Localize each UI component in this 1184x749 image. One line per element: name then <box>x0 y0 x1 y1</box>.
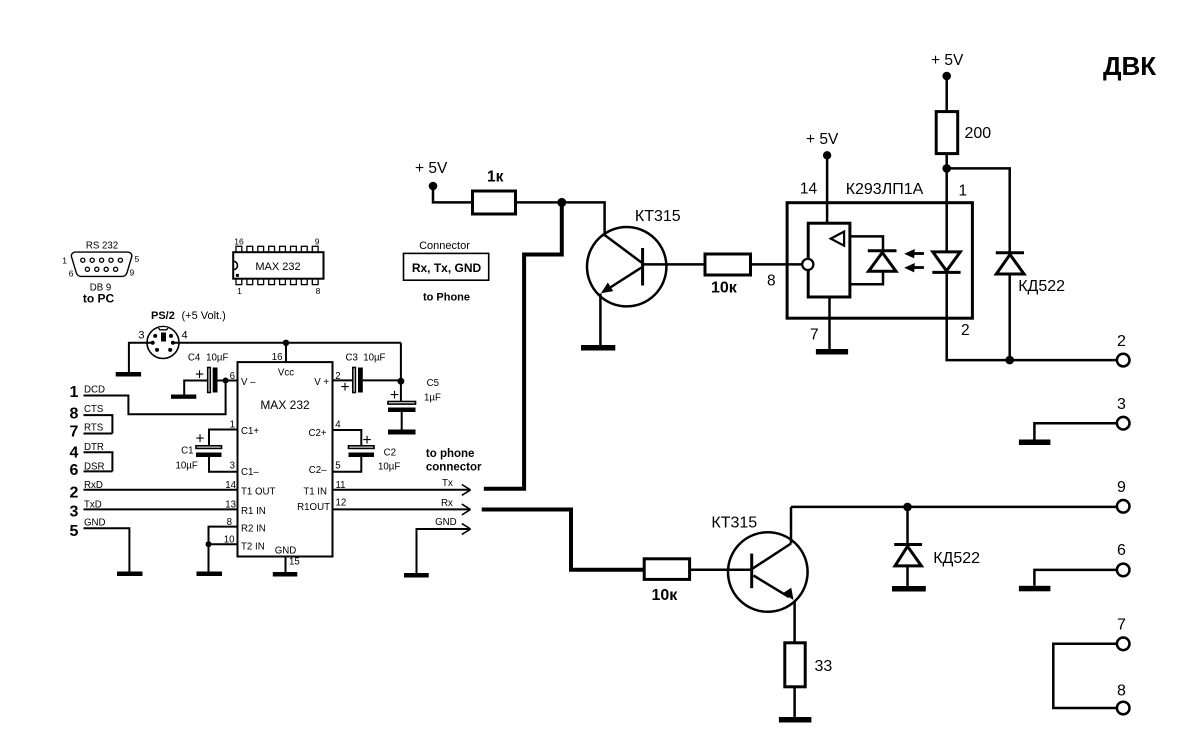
svg-text:КТ315: КТ315 <box>711 515 757 532</box>
wire R2 to opto input <box>751 263 803 266</box>
svg-text:GND: GND <box>275 546 297 557</box>
U1 pin 10 wire <box>209 543 238 545</box>
svg-text:C1–: C1– <box>241 467 259 478</box>
wire node to D3 KD522 <box>947 168 1010 252</box>
U1 pin 1 wire to C1 <box>209 430 238 446</box>
photodiode D2 cathode bar <box>932 271 960 274</box>
wire PS/2 pin3 to ground <box>129 343 153 372</box>
svg-text:3: 3 <box>230 460 235 471</box>
wire thick Rx stub <box>482 510 645 570</box>
PS/2 key <box>161 333 166 342</box>
U1 pin 3 wire from C1 <box>209 457 238 472</box>
capacitor C5 plates <box>388 402 416 413</box>
transistor Q1 KT315 body <box>587 227 666 306</box>
svg-text:1к: 1к <box>487 169 504 186</box>
DIP top pins <box>236 246 318 252</box>
svg-text:RS 232: RS 232 <box>86 241 118 252</box>
svg-text:C2+: C2+ <box>308 428 326 439</box>
wire D2 down to terminal row <box>947 272 1117 360</box>
U2 driver triangle <box>831 232 844 246</box>
node R3 anode junction <box>942 164 951 173</box>
svg-text:8: 8 <box>767 272 776 289</box>
op-amp U1 MAX232 body <box>238 362 333 556</box>
svg-text:4: 4 <box>335 420 341 431</box>
node +5V dot (opto) <box>823 151 831 159</box>
wire Vcc rail down to C3 junction <box>400 343 402 381</box>
wire terminal 6 to ground <box>1034 570 1117 586</box>
node pin10 junction <box>206 541 212 547</box>
wire C4 left to ground <box>184 381 208 395</box>
photodiode D2 triangle <box>933 252 961 271</box>
svg-text:+ 5V: + 5V <box>806 131 839 148</box>
Q2 base bar <box>750 554 753 589</box>
U1 pin 5 wire from C2 <box>333 457 362 472</box>
wire TxD to R1IN <box>84 508 238 510</box>
svg-text:3: 3 <box>1117 396 1126 413</box>
terminal 9 <box>1117 500 1130 513</box>
svg-text:1: 1 <box>959 182 968 199</box>
LED D1 triangle <box>869 253 897 272</box>
svg-text:to phone: to phone <box>426 448 475 460</box>
diode D3 KD522 cathode bar <box>996 251 1024 254</box>
svg-text:to PC: to PC <box>83 292 115 306</box>
optocoupler U2 K293LP1A outer body <box>787 203 972 319</box>
Q2 collector line <box>753 544 791 569</box>
svg-text:T1 OUT: T1 OUT <box>241 486 276 497</box>
wire node to D4 KD522 <box>906 507 909 544</box>
svg-text:2: 2 <box>1117 333 1126 350</box>
light arrow upper <box>910 252 924 255</box>
transistor Q2 KT315 body <box>728 532 808 612</box>
svg-text:33: 33 <box>815 658 833 675</box>
ground PS2 <box>116 372 141 377</box>
arrow GND <box>462 524 471 535</box>
svg-text:7: 7 <box>1117 617 1126 634</box>
terminal 7 <box>1117 638 1130 651</box>
wire thick junction to Tx stub <box>484 202 562 488</box>
ground terminal 6 <box>1019 586 1051 592</box>
svg-text:MAX 232: MAX 232 <box>255 261 300 273</box>
svg-text:10к: 10к <box>711 280 738 297</box>
wire R1 to junction <box>516 202 605 236</box>
node +5V dot (left) <box>429 182 438 191</box>
Q1 emitter wire to ground <box>599 294 602 346</box>
svg-text:C4: C4 <box>188 353 201 364</box>
U1 pin 16 wire Vcc <box>285 343 287 362</box>
IC package MAX 232 DIP-16 body <box>233 252 323 279</box>
svg-text:+ 5V: + 5V <box>415 160 448 177</box>
svg-text:R1OUT: R1OUT <box>297 502 330 513</box>
svg-text:6: 6 <box>69 269 74 279</box>
svg-text:КД522: КД522 <box>933 550 980 567</box>
svg-text:+: + <box>363 432 372 449</box>
svg-text:7: 7 <box>810 327 819 344</box>
ground U2 pin7 <box>816 349 848 355</box>
svg-text:+: + <box>341 379 350 396</box>
svg-text:GND: GND <box>84 518 106 529</box>
DB9 holes row1 <box>81 258 123 262</box>
svg-text:10µF: 10µF <box>378 462 400 473</box>
terminal 3 <box>1117 417 1130 430</box>
svg-text:10к: 10к <box>652 587 679 604</box>
svg-text:R2 IN: R2 IN <box>241 524 266 535</box>
svg-text:8: 8 <box>70 406 79 423</box>
Q2 collector wire up to rail <box>790 507 793 544</box>
wire +5V to driver pin14 <box>826 155 829 223</box>
ground Q1 <box>581 345 615 351</box>
svg-text:ДВК: ДВК <box>1103 51 1156 81</box>
wire D3 to terminal2 rail <box>1008 274 1011 360</box>
Q2 emitter line with arrow <box>754 576 790 598</box>
U2 input bubble pin 8 <box>802 259 813 270</box>
svg-text:DCD: DCD <box>84 385 105 396</box>
ground pin10 <box>197 572 223 577</box>
resistor R3 200 <box>936 112 958 154</box>
arrow Tx <box>462 485 471 496</box>
connector J1 DB9 RS232 body <box>71 252 132 276</box>
svg-text:+ 5V: + 5V <box>931 52 964 69</box>
DIP bottom pins <box>236 279 318 285</box>
wire DSR <box>84 470 113 472</box>
wire DCD to V- junction <box>84 381 226 414</box>
wire collector rail to terminal 9 <box>791 506 1117 509</box>
svg-text:C3: C3 <box>346 353 358 364</box>
resistor R1 1k <box>473 191 516 214</box>
node junction A <box>557 198 566 207</box>
svg-text:9: 9 <box>315 237 320 247</box>
terminal 8 <box>1117 702 1130 715</box>
Q1 emitter line with arrow <box>606 268 642 291</box>
DIP pin1 mark <box>236 274 239 277</box>
svg-text:GND: GND <box>435 517 457 528</box>
capacitor C4 plates <box>208 368 218 393</box>
svg-text:2: 2 <box>961 322 970 339</box>
arrow Rx <box>462 504 471 515</box>
Q2 emitter wire to R5 <box>793 601 796 643</box>
wire DTR <box>84 452 113 471</box>
svg-text:5: 5 <box>335 460 340 471</box>
ground D4 <box>892 586 926 592</box>
wire CTS <box>84 415 113 433</box>
svg-text:13: 13 <box>225 500 236 511</box>
svg-text:T2 IN: T2 IN <box>241 541 265 552</box>
svg-text:(+5 Volt.): (+5 Volt.) <box>182 310 226 322</box>
svg-text:8: 8 <box>1117 683 1126 700</box>
wire +5V to R 1k <box>433 186 473 202</box>
resistor R5 33 <box>785 643 805 687</box>
wire RTS <box>84 433 113 435</box>
DIP notch <box>233 261 237 270</box>
svg-text:9: 9 <box>130 268 135 278</box>
PS/2 pin dots <box>151 334 175 352</box>
svg-text:10µF: 10µF <box>363 353 385 364</box>
svg-text:PS/2: PS/2 <box>151 310 175 322</box>
wire C4 right to pin6 node <box>218 380 226 382</box>
svg-text:7: 7 <box>70 424 79 441</box>
svg-text:Connector: Connector <box>419 240 470 252</box>
svg-text:C2–: C2– <box>309 465 327 476</box>
U2 pin 7 wire to ground <box>828 297 831 349</box>
light arrow lower <box>910 266 924 269</box>
svg-text:8: 8 <box>316 286 321 296</box>
svg-text:to Phone: to Phone <box>423 292 470 304</box>
svg-text:MAX 232: MAX 232 <box>260 398 310 412</box>
wire R3 to node <box>945 154 948 169</box>
node +5V dot (200) <box>942 72 951 81</box>
svg-text:Vcc: Vcc <box>278 368 294 379</box>
DB9 holes row2 <box>85 267 117 271</box>
svg-text:Rx, Tx, GND: Rx, Tx, GND <box>412 261 482 275</box>
node V- junction <box>223 378 229 384</box>
ground C4 <box>171 395 196 399</box>
wire R4 to Q2 base <box>690 569 728 572</box>
ground R5 <box>779 717 812 723</box>
svg-text:15: 15 <box>289 557 300 568</box>
ground terminal 3 <box>1019 440 1051 446</box>
photodiode D2 wire from node <box>945 168 948 252</box>
svg-text:C5: C5 <box>427 378 439 389</box>
Q1 collector line <box>605 235 642 263</box>
Q1 base wire to R2 <box>643 263 705 266</box>
svg-text:5: 5 <box>135 254 140 264</box>
node Vcc junction <box>283 340 289 346</box>
svg-text:4: 4 <box>182 330 188 342</box>
svg-text:connector: connector <box>426 461 482 473</box>
wire R5 to ground <box>793 687 796 717</box>
svg-text:Tx: Tx <box>442 478 453 489</box>
wire GND out <box>417 529 471 573</box>
svg-text:5: 5 <box>70 523 79 540</box>
capacitor C2 plates <box>349 446 375 457</box>
svg-text:V –: V – <box>241 377 256 388</box>
wire C3 right to junction <box>363 379 401 381</box>
diode D3 triangle <box>996 255 1024 275</box>
wire RxD to T1OUT <box>84 489 238 491</box>
svg-text:КТ315: КТ315 <box>635 208 681 225</box>
svg-text:3: 3 <box>138 330 144 342</box>
wire PS/2 pin4 to Vcc rail <box>173 342 401 344</box>
U1 pin 11 wire Tx <box>333 489 471 491</box>
svg-text:3: 3 <box>70 504 79 521</box>
svg-text:1µF: 1µF <box>424 393 441 404</box>
svg-text:C1+: C1+ <box>241 426 259 437</box>
svg-text:Rx: Rx <box>441 498 453 509</box>
LED D1 cathode bar <box>868 249 897 252</box>
svg-text:10µF: 10µF <box>176 461 198 472</box>
ground GND5 <box>117 572 143 577</box>
ground U1 GND15 <box>273 572 298 577</box>
svg-text:V +: V + <box>314 377 329 388</box>
svg-text:10µF: 10µF <box>206 353 228 364</box>
connector box Rx,Tx,GND <box>404 253 489 280</box>
node D4 junction <box>903 503 912 512</box>
connector PS/2 body <box>147 327 179 359</box>
svg-text:1: 1 <box>70 384 79 401</box>
svg-text:200: 200 <box>965 125 992 142</box>
svg-text:16: 16 <box>272 352 283 363</box>
Q2 base wire <box>728 569 752 572</box>
resistor R4 10k <box>644 559 689 580</box>
U1 pin 6 wire <box>226 380 238 382</box>
svg-text:6: 6 <box>70 462 79 479</box>
wire D4 to ground <box>906 566 909 586</box>
U2 driver inner box <box>808 223 850 297</box>
wire +5V to R3 200 <box>945 76 948 112</box>
PS/2 top notch <box>158 327 168 330</box>
svg-text:R1 IN: R1 IN <box>241 506 266 517</box>
wire GND5 to ground <box>84 528 130 571</box>
svg-text:6: 6 <box>1117 542 1126 559</box>
wire junction down to C5 <box>400 381 402 401</box>
svg-text:+: + <box>390 387 399 404</box>
wire driver to LED bracket <box>850 236 883 284</box>
U1 pin 15 wire <box>285 557 287 573</box>
wire terminal 3 to ground <box>1034 423 1117 439</box>
ground C5 <box>388 430 416 435</box>
svg-text:9: 9 <box>1117 479 1126 496</box>
svg-text:+: + <box>196 431 205 448</box>
U1 pin 12 wire Rx <box>333 508 471 510</box>
svg-text:4: 4 <box>70 445 79 462</box>
wire terminal 7 to terminal 8 <box>1053 644 1117 708</box>
svg-text:C1: C1 <box>181 446 193 457</box>
svg-text:К293ЛП1А: К293ЛП1А <box>846 181 924 198</box>
svg-text:2: 2 <box>70 485 79 502</box>
svg-text:12: 12 <box>336 498 347 509</box>
svg-text:T1 IN: T1 IN <box>303 486 327 497</box>
svg-text:1: 1 <box>237 286 242 296</box>
svg-text:КД522: КД522 <box>1018 278 1065 295</box>
U1 pin 2 wire to C3 <box>333 379 353 381</box>
terminal 6 <box>1117 564 1130 577</box>
node C3 C5 junction <box>398 378 405 385</box>
svg-text:14: 14 <box>800 181 818 198</box>
U1 pin 4 wire to C2 <box>333 430 362 446</box>
svg-text:CTS: CTS <box>84 404 104 415</box>
svg-text:RTS: RTS <box>84 423 104 434</box>
svg-text:C2: C2 <box>384 448 396 459</box>
resistor R2 10k <box>705 254 751 275</box>
terminal 2 <box>1117 354 1130 367</box>
capacitor C3 plates <box>353 368 363 393</box>
U1 pin 8 wire <box>209 527 238 545</box>
node D3 junction <box>1005 356 1014 365</box>
diode D4 KD522 cathode bar <box>894 543 922 546</box>
Q1 base bar <box>641 248 644 286</box>
svg-text:1: 1 <box>62 256 67 266</box>
capacitor C1 plates <box>196 446 222 457</box>
diode D4 triangle <box>895 546 921 566</box>
svg-text:16: 16 <box>234 237 244 247</box>
ground GND out <box>404 573 429 578</box>
svg-text:14: 14 <box>225 480 236 491</box>
wire pin10 to ground <box>208 544 210 571</box>
wire C5 to ground <box>401 412 403 430</box>
